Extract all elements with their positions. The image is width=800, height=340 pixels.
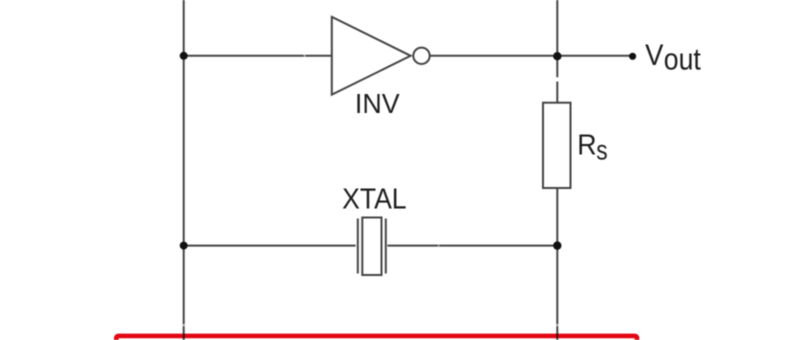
node junction dot right-bottom [553, 241, 561, 249]
svg-text:R: R [577, 129, 596, 161]
wire top horizontal from left rail to inverter input [184, 55, 332, 57]
label Vout [645, 39, 701, 77]
svg-text:INV: INV [355, 87, 400, 119]
svg-text:XTAL: XTAL [342, 184, 407, 216]
label INV [355, 87, 400, 119]
svg-text:V: V [645, 39, 663, 72]
wire right vertical rail upper segment [556, 0, 558, 77]
resistor RS body [543, 103, 571, 188]
node junction dot right-top [553, 52, 561, 60]
label RS [577, 129, 607, 165]
wire left rail joint gap [182, 324, 185, 326]
wire right rail short segment above resistor [556, 82, 558, 104]
svg-text:out: out [664, 42, 701, 76]
wire top horizontal joint gap [304, 54, 306, 57]
wire right rail lower segment below resistor [556, 188, 558, 340]
wire right rail joint gap [556, 324, 559, 326]
node Vout terminal dot [629, 53, 636, 60]
inverter INV output bubble [413, 48, 429, 64]
label XTAL [342, 184, 407, 216]
wire left vertical rail [183, 0, 185, 340]
inverter INV triangle [332, 17, 411, 95]
crystal XTAL left plate [357, 219, 359, 274]
svg-text:s: s [596, 134, 607, 165]
wire crystal row left segment [184, 245, 356, 247]
node junction dot left-top [180, 52, 188, 60]
wire crystal row joint gap [438, 244, 439, 247]
highlight box red annotation rectangle [116, 336, 637, 340]
wire crystal row right segment [388, 245, 558, 247]
crystal XTAL body [362, 218, 381, 276]
wire from inverter bubble to Vout terminal [430, 55, 633, 57]
crystal XTAL right plate [385, 219, 387, 274]
node junction dot left-bottom [180, 242, 188, 250]
